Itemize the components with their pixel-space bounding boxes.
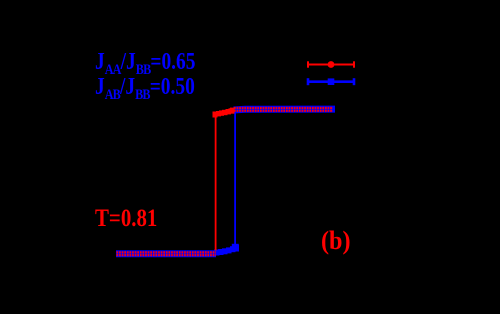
legend blue errorbar right cap xyxy=(353,78,356,85)
legend blue square marker xyxy=(328,78,335,85)
red dotted row upper on upper plateau xyxy=(234,107,333,109)
label T=0.81 xyxy=(95,206,157,231)
label JAB/JBB=0.50 xyxy=(95,75,195,99)
blue curve upper plateau band xyxy=(234,106,336,114)
blue vertical jump line xyxy=(234,113,236,247)
red vertical jump line xyxy=(215,114,217,251)
red shoulder markers at top of jump xyxy=(213,108,235,118)
label (b) xyxy=(321,228,351,254)
label JAA/JBB=0.65 xyxy=(95,50,195,74)
blue shoulder markers at bottom of jump xyxy=(214,245,239,256)
legend blue errorbar line xyxy=(308,80,355,83)
legend red errorbar line xyxy=(308,64,355,66)
blue curve lower plateau band xyxy=(116,250,216,257)
legend blue errorbar left cap xyxy=(307,78,310,85)
legend red errorbar right cap xyxy=(353,61,355,67)
legend red errorbar left cap xyxy=(307,61,309,67)
blue square marker at bottom of jump xyxy=(232,244,239,251)
legend red circle marker xyxy=(328,61,335,68)
red dotted row lower on upper plateau xyxy=(234,110,333,112)
red dotted row lower on lower plateau xyxy=(117,254,217,256)
red dotted row upper on lower plateau xyxy=(117,251,217,253)
